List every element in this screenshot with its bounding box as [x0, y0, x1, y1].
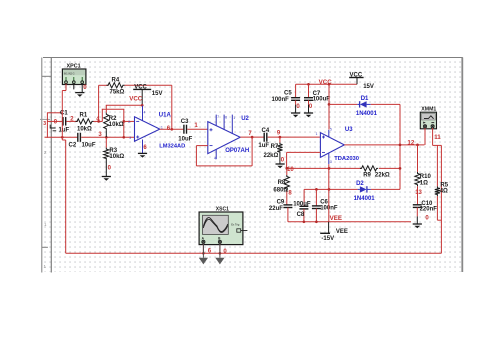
net 0 under C7: [309, 104, 313, 110]
svg-text:U1A: U1A: [159, 112, 172, 118]
C2 value 10uF: [82, 142, 96, 148]
R8 label: [278, 180, 286, 186]
svg-text:XPC1: XPC1: [67, 64, 81, 70]
svg-text:13: 13: [415, 190, 422, 196]
U1A pin4 number: [144, 110, 146, 114]
R4 label: [112, 78, 120, 84]
svg-text:C1: C1: [60, 111, 68, 117]
junction VCC stub: [141, 104, 144, 107]
wire XMM1 right pin: [433, 128, 442, 145]
wire XSC1 A pin: [202, 244, 204, 254]
junction feedback-output: [170, 128, 173, 131]
U3 label: [345, 127, 353, 133]
C5 ground lead: [295, 105, 297, 113]
junction C8 bottom: [303, 220, 306, 223]
wire XSC1 B pin: [219, 244, 221, 254]
wire U3 minus input: [287, 152, 321, 168]
VCC rail wire: [296, 84, 357, 97]
wire to U1A inverting input: [124, 120, 135, 122]
net 12 label: [407, 140, 414, 147]
wire U1A out: [160, 128, 184, 130]
svg-text:C4: C4: [262, 128, 270, 134]
svg-text:1: 1: [161, 125, 163, 129]
svg-text:U2: U2: [241, 116, 249, 122]
VEE rail wire: [288, 221, 411, 223]
wire R1 to corner: [94, 120, 103, 122]
XPC1 pin2 stub: [73, 84, 75, 90]
wire C8 top drop: [303, 189, 305, 206]
D2 label: [356, 181, 364, 187]
C6 label: [320, 199, 328, 205]
junction R2 bottom: [105, 136, 108, 139]
R2 label: [109, 116, 117, 122]
svg-text:VCC: VCC: [350, 73, 363, 79]
diode D2: [358, 186, 371, 192]
VEE net label red: [330, 215, 342, 222]
svg-text:0: 0: [83, 84, 87, 91]
capacitor C6: [312, 206, 321, 222]
VCC label black: [134, 84, 147, 90]
svg-text:8: 8: [225, 116, 227, 120]
svg-text:TDA2030: TDA2030: [334, 156, 359, 162]
U2 pin8 number: [225, 116, 227, 120]
junction R9-D2 drop: [399, 167, 402, 170]
C7 value 100uF: [313, 97, 331, 103]
XPC1 label: [67, 64, 81, 70]
ground under R3: [102, 177, 111, 181]
svg-text:-15V: -15V: [321, 236, 334, 242]
junction VCC dropper: [328, 83, 331, 86]
C1 value 1uF: [59, 127, 70, 133]
ground arrow A: [199, 258, 208, 265]
R8 value 680O: [273, 188, 288, 194]
svg-text:11: 11: [434, 134, 441, 141]
capacitor C10: [413, 205, 422, 217]
R9 label: [363, 173, 371, 179]
capacitor C4: [264, 133, 267, 142]
sheet border frame: [40, 58, 463, 273]
net 6 label at U1A out: [167, 126, 171, 132]
oscilloscope XSC1: [199, 212, 247, 245]
U1A pin2 number: [128, 120, 130, 124]
svg-text:22kΩ: 22kΩ: [375, 173, 390, 179]
R10 label: [420, 174, 432, 180]
capacitor C8: [299, 206, 308, 222]
VCC net label red: [129, 96, 143, 103]
XPC1 pin3 ground lead: [81, 84, 83, 93]
svg-text:22kΩ: 22kΩ: [264, 153, 279, 159]
U1A pin3 number: [129, 136, 131, 140]
svg-text:R9: R9: [363, 173, 371, 179]
svg-text:LM324AD: LM324AD: [159, 144, 185, 150]
svg-text:10kΩ: 10kΩ: [109, 154, 124, 160]
D1 part 1N4001: [356, 111, 378, 117]
capacitor C1: [63, 117, 66, 126]
svg-text:4Ω: 4Ω: [440, 189, 448, 195]
capacitor C7: [304, 98, 313, 105]
wire R10 to C10: [417, 186, 419, 204]
wire VEE diode line: [304, 188, 358, 190]
U1A part LM324AD: [159, 144, 185, 150]
junction B rail: [219, 252, 222, 255]
svg-text:1N4001: 1N4001: [354, 196, 376, 202]
net 10 label: [287, 167, 294, 173]
svg-text:22uF: 22uF: [269, 206, 283, 212]
resistor R1: [76, 119, 94, 124]
svg-text:680Ω: 680Ω: [273, 188, 288, 194]
svg-text:C5: C5: [284, 90, 292, 96]
C10 ground lead: [416, 216, 418, 223]
VEE power symbol: [320, 222, 330, 234]
svg-text:100nF: 100nF: [272, 97, 290, 103]
svg-text:1N4001: 1N4001: [356, 111, 378, 117]
C7 ground lead: [308, 105, 310, 113]
C4 label: [262, 128, 270, 134]
junction node4: [97, 120, 100, 123]
svg-text:Ex Trig: Ex Trig: [231, 223, 240, 227]
net 11 label: [434, 134, 441, 141]
svg-text:10kΩ: 10kΩ: [77, 126, 92, 132]
C10 value 220nF: [420, 206, 438, 212]
junction U3 out fb: [399, 144, 402, 147]
multimeter XMM1: [420, 112, 436, 129]
junction detour-top-input: [122, 120, 125, 123]
wire input to C1: [47, 120, 63, 122]
C7 label: [313, 91, 321, 97]
net 6 label at scope: [208, 249, 212, 255]
net 7 label: [248, 131, 252, 137]
ground under C5: [291, 113, 300, 117]
junction D1 tap: [328, 103, 331, 106]
net 6 label under U1A: [143, 145, 147, 151]
svg-text:VCC: VCC: [134, 84, 147, 90]
wire R4 right to output node: [125, 85, 172, 129]
node 0 label (input): [54, 119, 58, 125]
U2 pin4 number: [214, 156, 216, 160]
svg-text:C6: C6: [320, 199, 328, 205]
junction R10 tap: [416, 144, 419, 147]
C6 value 100nF: [320, 206, 338, 212]
svg-text:1: 1: [316, 132, 318, 136]
junction xpc wire crossing: [61, 136, 64, 139]
C3 value 10uF: [178, 137, 192, 143]
wire C7 top: [308, 84, 310, 97]
junction C7 tap: [307, 83, 310, 86]
C9 label: [277, 200, 285, 206]
junction VEE line crossing: [328, 188, 331, 191]
R7 label: [271, 144, 279, 150]
R10 value 1O: [420, 181, 428, 187]
net 8 label: [288, 190, 292, 196]
U3 pin1 number: [316, 132, 318, 136]
svg-text:100uF: 100uF: [313, 97, 331, 103]
R5 value 4O: [440, 189, 448, 195]
C9 value 22uF: [269, 206, 283, 212]
ground stem B: [219, 244, 221, 258]
resistor R4: [107, 83, 125, 88]
net 0 under C10: [425, 216, 429, 222]
svg-text:C3: C3: [181, 119, 189, 125]
svg-text:15V: 15V: [363, 84, 374, 90]
U2 part OP07AH: [225, 148, 249, 154]
svg-text:XSC1: XSC1: [216, 206, 229, 212]
svg-text:15V: 15V: [152, 91, 163, 97]
D1 label: [361, 96, 369, 102]
C8 value 100uF: [293, 201, 311, 207]
svg-text:10kΩ: 10kΩ: [109, 122, 124, 128]
svg-text:R7: R7: [271, 144, 279, 150]
15V label: [152, 91, 163, 97]
svg-text:1Ω: 1Ω: [420, 181, 428, 187]
capacitor C3: [184, 125, 187, 134]
junction U3 VEE crossing: [328, 167, 331, 170]
C1 label: [60, 111, 68, 117]
junction R8 top: [285, 167, 288, 170]
svg-text:D1: D1: [361, 96, 369, 102]
U1A label: [159, 112, 172, 118]
svg-text:D2: D2: [356, 181, 364, 187]
R1 label: [80, 112, 88, 118]
bottom rail wire: [66, 252, 442, 254]
svg-text:VCC: VCC: [129, 96, 143, 103]
C4 value 1uF: [258, 143, 269, 149]
VCC power symbol (U1A): [133, 89, 151, 105]
junction C6 bottom: [315, 220, 318, 223]
wire R9 right: [379, 167, 400, 169]
wire XPC1 pin1 down: [62, 84, 66, 254]
-15V label: [321, 236, 334, 242]
wire U3 VEE drop: [328, 164, 330, 222]
resistor R2: [104, 113, 109, 138]
net 0 label under R7: [281, 157, 285, 163]
svg-text:3: 3: [43, 121, 46, 127]
resistor R9: [360, 166, 378, 171]
svg-text:C9: C9: [277, 200, 285, 206]
R3 label: [109, 148, 117, 154]
C5 label: [284, 90, 292, 96]
junction U2 out: [251, 136, 254, 139]
wire net10: [287, 167, 362, 169]
U2 label: [241, 116, 249, 122]
svg-text:XMM1: XMM1: [421, 107, 436, 113]
XMM1 label: [421, 107, 436, 113]
VCC label black (U3): [350, 73, 363, 79]
capacitor C9: [283, 205, 292, 222]
svg-text:R10: R10: [420, 174, 432, 180]
R1 value 10kO: [77, 126, 92, 132]
wire C1 to R1: [67, 120, 78, 122]
wire C3 to U2: [187, 128, 208, 130]
wire U2 out: [240, 136, 264, 138]
svg-text:12: 12: [407, 140, 414, 147]
VEE label black: [336, 229, 348, 235]
ground stem A: [202, 244, 204, 258]
svg-text:3: 3: [330, 160, 332, 164]
U1A pin1 number: [161, 125, 163, 129]
ground under C7: [304, 113, 313, 117]
node 3 label (input): [43, 121, 46, 127]
net 0 under C5: [296, 104, 300, 110]
U2 pin7 number: [217, 115, 219, 119]
junction C6 tap top: [315, 188, 318, 191]
wire R2 top: [105, 105, 107, 113]
wire input top from left: [47, 112, 62, 114]
R9 value 22kO: [375, 173, 390, 179]
wire R4 left leg: [99, 85, 109, 121]
wire detour over R2: [102, 109, 125, 137]
node 2 label: [70, 116, 74, 122]
svg-text:10uF: 10uF: [82, 142, 96, 148]
XSC1 label: [216, 206, 229, 212]
svg-text:R4: R4: [112, 78, 120, 84]
ground under U1A: [138, 153, 147, 157]
junction detour-bottom: [122, 136, 125, 139]
C10 label: [421, 201, 433, 207]
op-amp U2: [208, 115, 240, 160]
resistor R5: [435, 145, 442, 220]
wire C4 to U3: [268, 136, 321, 138]
wire to D1: [329, 103, 357, 105]
net 0 label under R3: [108, 165, 112, 171]
svg-text:75kΩ: 75kΩ: [110, 90, 125, 96]
svg-text:3: 3: [129, 136, 131, 140]
svg-text:4: 4: [144, 110, 146, 114]
C2 label: [69, 143, 77, 149]
C3 label: [181, 119, 189, 125]
resistor R8: [284, 168, 289, 204]
diode D1: [357, 101, 370, 107]
wire C6 drop: [315, 189, 317, 206]
resistor R7: [277, 137, 282, 164]
svg-text:IN1 IN2 G: IN1 IN2 G: [64, 72, 75, 75]
capacitor C5: [291, 98, 300, 105]
net 0 blob at XPC1: [83, 84, 87, 91]
U3 pin3 number: [330, 160, 332, 164]
R5 label: [440, 183, 448, 189]
R7 value 22kO: [264, 153, 279, 159]
wire U2 feedback: [196, 137, 252, 166]
VCC power symbol (U3): [349, 78, 363, 85]
wire U3 out: [344, 144, 424, 146]
svg-text:4: 4: [214, 156, 216, 160]
net 13 label: [415, 190, 422, 196]
svg-text:1uF: 1uF: [258, 143, 269, 149]
wire XMM1 left pin: [424, 128, 426, 145]
connector XPC1: [62, 69, 86, 85]
svg-text:5: 5: [330, 128, 332, 132]
input probe mark: [50, 125, 56, 131]
node 4 label: [96, 117, 100, 123]
svg-text:100uF: 100uF: [293, 201, 311, 207]
wire right drop: [440, 145, 442, 253]
svg-text:1uF: 1uF: [59, 127, 70, 133]
U2 pin1 number: [233, 116, 235, 120]
wire R2top to VCC stub: [106, 104, 142, 106]
svg-text:R3: R3: [109, 148, 117, 154]
wire D2 right: [371, 188, 400, 190]
svg-text:VEE: VEE: [330, 215, 342, 222]
node 3 label (divider): [98, 132, 102, 138]
ground arrow B: [215, 258, 224, 265]
svg-text:R1: R1: [80, 112, 88, 118]
ground under XPC1: [75, 93, 84, 97]
R3 value 10kO: [109, 154, 124, 160]
D2 part 1N4001: [354, 196, 376, 202]
svg-text:OP07AH: OP07AH: [225, 148, 249, 154]
op-amp U1A: [135, 106, 160, 154]
U3 pin5 number: [330, 128, 332, 132]
wire D1 to output drop: [371, 104, 400, 189]
ground under R7: [276, 164, 285, 168]
resistor R3: [104, 137, 109, 176]
svg-text:U3: U3: [345, 127, 353, 133]
svg-text:R8: R8: [278, 180, 286, 186]
net 0 label at scope: [223, 249, 227, 255]
wire VCC dropper: [328, 84, 330, 129]
net 1 label: [194, 123, 198, 129]
wire node3 rail right: [81, 136, 134, 138]
resistor R10: [415, 145, 420, 186]
capacitor C2: [78, 133, 81, 142]
svg-text:10uF: 10uF: [178, 137, 192, 143]
svg-text:1: 1: [233, 116, 235, 120]
junction R7 top: [279, 136, 282, 139]
C5 value 100nF: [272, 97, 290, 103]
svg-text:220nF: 220nF: [420, 206, 438, 212]
op-amp U3 TDA2030: [320, 130, 344, 164]
junction A rail: [202, 252, 205, 255]
svg-text:2: 2: [128, 120, 130, 124]
15V label (U3): [363, 84, 374, 90]
R4 value 75kO: [110, 90, 125, 96]
svg-text:C8: C8: [297, 212, 305, 218]
wire left vertical tie: [46, 112, 48, 137]
svg-text:VEE: VEE: [336, 229, 348, 235]
VCC net label red (rail): [319, 79, 333, 86]
svg-text:C2: C2: [69, 143, 77, 149]
R2 value 10kO: [109, 122, 124, 128]
U3 part TDA2030: [334, 156, 359, 162]
C8 label: [297, 212, 305, 218]
ground under C10: [413, 224, 422, 228]
wire node3 rail left: [45, 136, 78, 138]
svg-text:7: 7: [217, 115, 219, 119]
net 9 label: [277, 130, 281, 136]
